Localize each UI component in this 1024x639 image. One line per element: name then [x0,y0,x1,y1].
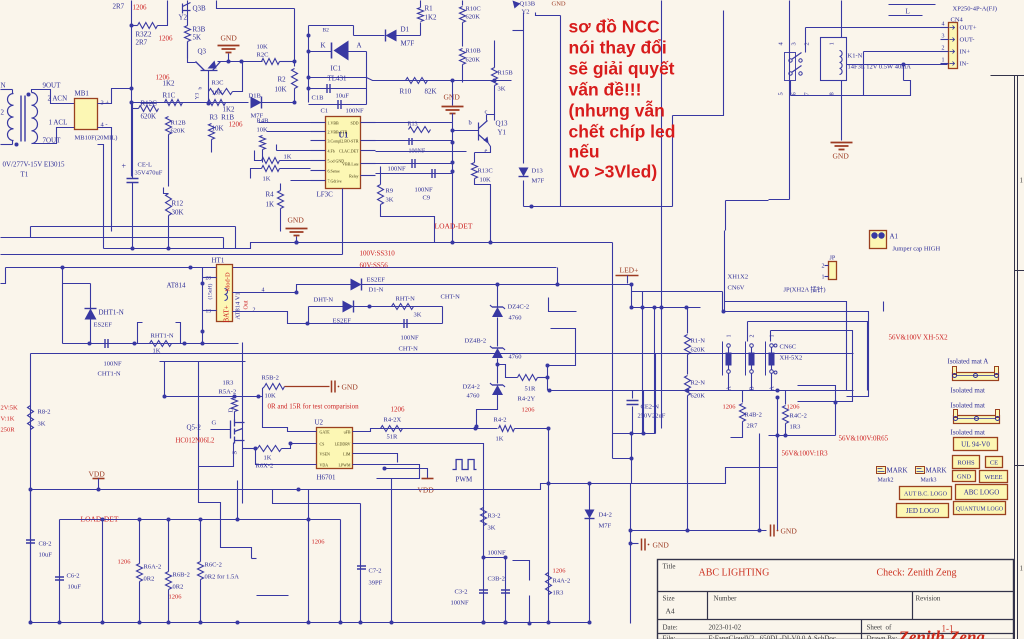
svg-text:2: 2 [750,335,756,338]
svg-text:LEDDRV: LEDDRV [335,442,351,447]
svg-text:GND: GND [781,527,798,536]
svg-text:1206: 1206 [553,568,567,575]
svg-text:uFB: uFB [344,430,351,435]
svg-text:ROHS: ROHS [957,459,975,466]
svg-text:D13: D13 [532,168,543,175]
svg-text:UL 94-V0: UL 94-V0 [961,440,990,448]
svg-text:TL431: TL431 [328,75,348,83]
svg-text:10K: 10K [257,127,269,134]
svg-text:IC1: IC1 [331,65,342,73]
svg-text:1K: 1K [496,436,504,443]
svg-text:56V&100V XH-5X2: 56V&100V XH-5X2 [889,334,949,342]
svg-text:vấn đề!!!: vấn đề!!! [569,80,642,100]
svg-text:DHT-N: DHT-N [314,297,334,304]
svg-text:620K: 620K [171,128,186,135]
svg-text:3K: 3K [38,421,46,428]
svg-text:T1: T1 [21,171,29,179]
svg-text:C3-2: C3-2 [455,589,468,596]
svg-text:JP: JP [830,256,836,262]
svg-text:GATE: GATE [320,430,331,435]
svg-text:13: 13 [206,309,212,315]
svg-text:M7F: M7F [599,523,612,530]
svg-text:Drawn By:: Drawn By: [867,635,898,639]
svg-text:1K2: 1K2 [425,14,438,22]
svg-text:4: 4 [942,22,945,28]
svg-text:39PF: 39PF [369,580,383,587]
svg-text:R2C: R2C [257,52,269,59]
svg-text:JP(XH2A 插针): JP(XH2A 插针) [784,285,826,294]
svg-text:Isolated mat: Isolated mat [951,429,985,437]
svg-text:1K: 1K [266,201,275,209]
svg-text:R4A-2: R4A-2 [553,578,571,585]
svg-text:56V&100V:0R65: 56V&100V:0R65 [839,435,889,443]
svg-text:N: N [1,82,6,90]
svg-text:4760: 4760 [509,315,522,322]
svg-text:nếu: nếu [569,142,600,162]
svg-text:VDA: VDA [320,463,329,468]
svg-text:DZ4B-2: DZ4B-2 [465,338,487,345]
svg-text:5: 5 [778,92,785,95]
svg-text:2R7: 2R7 [113,3,125,11]
svg-text:GND: GND [552,1,566,8]
svg-text:M7F: M7F [532,178,545,185]
svg-text:LED+: LED+ [620,266,639,275]
svg-text:1 ACL: 1 ACL [49,119,68,127]
svg-text:10uF: 10uF [336,93,350,100]
svg-text:10uF: 10uF [39,552,53,559]
svg-text:1: 1 [822,275,825,281]
svg-text:R6X-2: R6X-2 [256,463,274,470]
svg-text:1206: 1206 [118,559,132,566]
svg-text:AT814 V1: AT814 V1 [235,292,242,319]
svg-text:Mod-D: Mod-D [225,272,232,291]
svg-text:DHT1-N: DHT1-N [99,309,124,317]
svg-text:C3B-2: C3B-2 [488,576,505,583]
svg-text:1: 1 [770,335,776,338]
svg-text:GND: GND [288,216,305,225]
svg-text:Zenith Zeng: Zenith Zeng [898,628,986,639]
svg-text:620K: 620K [466,14,481,21]
svg-text:1K2: 1K2 [163,80,176,88]
svg-text:3K: 3K [386,197,394,204]
svg-text:30K: 30K [172,209,184,217]
svg-text:K: K [321,42,326,50]
svg-text:6.Sense: 6.Sense [328,169,341,174]
svg-text:LF3C: LF3C [317,191,334,199]
svg-text:3K: 3K [498,86,506,93]
svg-text:WEEE: WEEE [984,474,1002,481]
svg-text:4.Fb: 4.Fb [328,149,335,154]
svg-text:AT814: AT814 [167,282,187,290]
svg-text:51R: 51R [525,386,537,393]
svg-text:JED LOGO: JED LOGO [906,507,939,515]
svg-text:XP250-4P-A(FJ): XP250-4P-A(FJ) [953,6,997,13]
svg-text:Vo >3Vled): Vo >3Vled) [569,162,658,182]
svg-text:CHT-N: CHT-N [441,294,461,301]
svg-text:R3-2: R3-2 [488,513,501,520]
svg-text:sẽ giải quyết: sẽ giải quyết [569,59,675,79]
svg-text:H6701: H6701 [317,474,337,482]
svg-text:MARK: MARK [887,467,908,475]
svg-text:CN6C: CN6C [780,344,797,351]
svg-text:chết chíp led: chết chíp led [569,122,676,142]
svg-text:12.BO-STR: 12.BO-STR [339,139,359,144]
svg-text:1206: 1206 [229,121,244,129]
svg-text:5K: 5K [193,34,202,42]
svg-text:CHT-N: CHT-N [399,346,419,353]
svg-text:3: 3 [942,34,945,40]
svg-text:Isolated mat: Isolated mat [951,402,985,410]
svg-text:3: 3 [791,42,798,45]
svg-text:1: 1 [727,335,733,338]
svg-text:0V/277V-15V EI3015: 0V/277V-15V EI3015 [3,161,66,169]
svg-text:1206: 1206 [723,404,737,411]
svg-text:1R3: 1R3 [790,424,801,431]
svg-text:1K: 1K [263,176,271,183]
svg-text:A: A [727,386,733,391]
svg-text:C1: C1 [321,108,329,115]
svg-text:C9: C9 [423,195,431,202]
svg-text:R10B: R10B [466,48,482,55]
svg-text:R6A-2: R6A-2 [144,564,162,571]
svg-text:100NF: 100NF [451,600,469,607]
svg-text:100NF: 100NF [401,335,419,342]
svg-text:C8-2: C8-2 [39,541,52,548]
svg-text:BAT+: BAT+ [223,305,231,322]
svg-text:1R3: 1R3 [223,380,234,387]
svg-text:HT1: HT1 [212,257,225,265]
svg-text:1: 1 [1020,177,1024,185]
svg-text:1206: 1206 [312,539,326,546]
svg-text:E:FangCloudV2. .650DL-DI-V0.0.: E:FangCloudV2. .650DL-DI-V0.0.A.SchDoc [709,635,837,639]
svg-text:Mark2: Mark2 [878,478,894,484]
svg-text:35V470uF: 35V470uF [135,170,163,177]
svg-text:GND: GND [833,152,850,161]
svg-text:4760: 4760 [509,354,522,361]
svg-text:100NF: 100NF [388,166,406,173]
svg-text:10K: 10K [265,393,277,400]
svg-text:56V&100V:1R3: 56V&100V:1R3 [782,450,829,458]
svg-text:V:1K: V:1K [1,416,15,423]
svg-text:100NF: 100NF [104,361,122,368]
svg-text:1206: 1206 [169,594,183,601]
svg-text:9OUT: 9OUT [43,82,62,90]
svg-text:Isolated mat A: Isolated mat A [948,358,989,366]
svg-text:10K: 10K [257,44,269,51]
svg-text:sơ đồ NCC: sơ đồ NCC [569,17,661,37]
svg-text:10uF: 10uF [68,584,82,591]
svg-text:Mark3: Mark3 [921,478,937,484]
svg-text:1: 1 [829,42,836,45]
svg-text:R12C: R12C [141,100,158,108]
svg-text:HC012N06L2: HC012N06L2 [176,438,215,445]
svg-text:R4C-2: R4C-2 [790,413,807,420]
svg-text:Y2: Y2 [522,9,530,16]
svg-text:CS: CS [320,442,325,447]
svg-text:60V:SS56: 60V:SS56 [360,262,389,270]
svg-text:PWM: PWM [456,476,474,484]
svg-text:R1-N: R1-N [691,338,706,345]
svg-text:R1C: R1C [163,92,176,100]
svg-text:GND: GND [342,383,359,392]
svg-text:VDD: VDD [89,470,106,479]
svg-text:B: B [750,386,756,390]
svg-text:1: 1 [942,58,945,64]
svg-text:C7-2: C7-2 [369,568,382,575]
svg-text:R6B-2: R6B-2 [173,572,190,579]
svg-text:2: 2 [1,109,5,117]
svg-text:2: 2 [822,264,825,270]
svg-text:AUT B.C. LOGO: AUT B.C. LOGO [904,491,948,497]
svg-text:7.Gdrive: 7.Gdrive [328,179,342,184]
svg-text:ES2EF: ES2EF [367,277,386,284]
svg-text:R2-N: R2-N [691,380,706,387]
svg-text:A: A [357,42,362,50]
svg-text:VSEN: VSEN [320,452,331,457]
svg-text:A1: A1 [890,233,899,241]
svg-text:R1: R1 [425,5,434,13]
svg-text:R4B-2: R4B-2 [745,412,762,419]
svg-text:R6C-2: R6C-2 [205,562,222,569]
svg-text:R4-2Y: R4-2Y [518,396,536,403]
svg-text:2: 2 [804,42,811,45]
svg-text:M7F: M7F [251,113,264,120]
svg-text:XH1X2: XH1X2 [728,274,749,281]
svg-text:2: 2 [253,308,256,314]
svg-text:620K: 620K [466,57,481,64]
svg-text:OUT+: OUT+ [960,25,977,32]
svg-text:1R3: 1R3 [553,590,564,597]
svg-text:ES2EF: ES2EF [94,322,113,329]
svg-text:ABC LIGHTING: ABC LIGHTING [699,568,770,579]
svg-text:20: 20 [206,276,212,282]
svg-text:1206: 1206 [787,404,801,411]
svg-text:250R: 250R [1,427,16,434]
svg-text:XH-5X2: XH-5X2 [780,355,803,362]
svg-text:1K: 1K [264,455,272,462]
svg-text:Check: Zenith Zeng: Check: Zenith Zeng [877,568,957,579]
svg-text:OUT-: OUT- [960,37,975,44]
svg-text:R4-2X: R4-2X [384,417,402,424]
svg-text:Size: Size [663,595,675,603]
svg-text:0R2: 0R2 [173,584,184,591]
svg-text:A4: A4 [666,607,675,616]
svg-text:82K: 82K [425,88,437,96]
svg-text:R5A-2: R5A-2 [219,389,237,396]
svg-text:1.VBB: 1.VBB [328,121,340,126]
svg-text:Q5-2: Q5-2 [187,424,202,432]
svg-text:R8-2: R8-2 [38,409,51,416]
svg-text:QUANTUM LOGO: QUANTUM LOGO [956,506,1003,512]
svg-text:1K2: 1K2 [223,106,236,114]
svg-text:G: G [212,420,217,427]
svg-text:R12B: R12B [171,120,187,127]
svg-text:100NF: 100NF [488,550,506,557]
svg-text:R13C: R13C [478,168,493,175]
svg-text:GND: GND [653,541,670,550]
svg-text:Sheet of: Sheet of [867,624,893,632]
svg-text:GND: GND [444,93,461,102]
svg-text:M7F: M7F [401,40,415,48]
svg-text:100V:SS310: 100V:SS310 [360,250,396,258]
svg-text:CLAC.DET: CLAC.DET [339,149,359,154]
svg-text:2V:5K: 2V:5K [1,405,19,412]
svg-text:MB1: MB1 [75,90,90,98]
svg-text:3K: 3K [488,525,496,532]
svg-text:C6-2: C6-2 [67,573,80,580]
svg-text:SDD: SDD [350,121,358,126]
svg-text:Number: Number [714,595,738,603]
svg-text:IN-: IN- [960,61,969,68]
svg-text:3K: 3K [414,312,422,319]
svg-text:GND: GND [957,473,971,480]
svg-text:2R7: 2R7 [136,39,148,47]
svg-text:0R2: 0R2 [144,576,155,583]
svg-text:1K: 1K [284,154,292,161]
svg-text:VBB.Late: VBB.Late [342,162,359,167]
svg-text:D1B: D1B [249,93,262,100]
svg-text:RHT-N: RHT-N [396,296,416,303]
svg-text:R9: R9 [386,188,394,195]
svg-text:GND: GND [221,34,238,43]
svg-text:620K: 620K [691,347,706,354]
svg-text:R3C: R3C [212,80,224,87]
svg-text:620K: 620K [141,113,157,121]
svg-text:(15uH): (15uH) [207,283,214,299]
svg-text:CE: CE [990,459,998,466]
svg-text:LPWM: LPWM [339,463,351,468]
svg-text:10K: 10K [480,177,492,184]
svg-text:R4-2: R4-2 [494,417,507,424]
svg-text:Y1: Y1 [498,129,507,137]
svg-text:2 ACN: 2 ACN [48,95,68,103]
svg-text:100NF: 100NF [346,108,364,115]
svg-text:CE-L: CE-L [138,162,152,169]
svg-text:U2: U2 [315,419,324,427]
svg-text:Isolated mat: Isolated mat [951,387,985,395]
svg-text:RHT1-N: RHT1-N [151,333,174,340]
svg-text:2R7: 2R7 [747,423,759,430]
svg-text:CHT1-N: CHT1-N [98,371,121,378]
svg-text:File:: File: [663,635,676,639]
svg-text:620K: 620K [691,393,706,400]
svg-text:10K: 10K [275,86,287,94]
svg-text:Title: Title [663,563,676,571]
svg-text:4760: 4760 [467,393,480,400]
svg-text:R10: R10 [400,88,412,96]
svg-text:R12: R12 [172,200,184,208]
svg-text:D1-N: D1-N [369,287,384,294]
svg-text:DZ4C-2: DZ4C-2 [508,304,530,311]
svg-text:B2: B2 [323,28,330,34]
svg-text:Q13: Q13 [496,120,509,128]
svg-text:100NF: 100NF [415,187,433,194]
svg-text:b: b [469,120,472,127]
svg-text:R5B-2: R5B-2 [262,375,279,382]
svg-text:Relay: Relay [349,174,358,179]
svg-text:2: 2 [942,46,945,52]
svg-text:1206: 1206 [522,407,536,414]
svg-text:e: e [485,148,488,155]
svg-text:L: L [906,8,910,16]
svg-text:Q3B: Q3B [193,5,207,13]
svg-text:K1-N: K1-N [848,53,863,60]
svg-text:D: D [228,408,235,413]
svg-text:1206: 1206 [159,35,174,43]
svg-text:2.VBB-STR: 2.VBB-STR [328,130,348,135]
svg-text:(nhưng vẫn: (nhưng vẫn [569,100,665,121]
svg-text:R10C: R10C [466,6,481,13]
svg-text:A: A [770,386,776,391]
svg-text:R15B: R15B [498,70,514,77]
svg-text:Q13B: Q13B [520,1,536,8]
svg-text:Y2: Y2 [179,14,188,22]
svg-text:D4-2: D4-2 [599,512,612,519]
svg-text:10K: 10K [212,90,224,97]
svg-text:Jumper cap HIGH: Jumper cap HIGH [893,246,941,253]
svg-text:7OUT: 7OUT [43,137,62,145]
svg-text:ABC LOGO: ABC LOGO [964,488,1000,496]
svg-text:0R and 15R for test comparisio: 0R and 15R for test comparision [268,403,360,411]
svg-text:CN6V: CN6V [728,285,745,292]
svg-text:nói thay đổi: nói thay đổi [569,38,667,58]
svg-text:D1: D1 [401,26,410,34]
svg-text:S: S [232,451,239,455]
svg-text:IN+: IN+ [960,49,971,56]
svg-text:1206: 1206 [391,406,406,414]
svg-text:51R: 51R [387,434,399,441]
svg-text:Q3: Q3 [198,48,207,56]
svg-text:DZ4-2: DZ4-2 [463,384,480,391]
svg-text:LIM: LIM [343,452,351,457]
svg-text:R3B: R3B [193,26,206,34]
svg-text:Y3: Y3 [195,93,201,100]
svg-text:C1B: C1B [312,95,325,102]
svg-text:b: b [198,87,204,90]
svg-text:0R2 for 1.5A: 0R2 for 1.5A [205,574,240,581]
svg-text:2023-01-02: 2023-01-02 [709,624,742,632]
svg-text:R3Z2: R3Z2 [136,31,152,39]
svg-text:1206: 1206 [133,4,148,12]
svg-text:Date:: Date: [663,624,678,632]
svg-text:1: 1 [1020,565,1024,573]
svg-text:R13: R13 [408,122,418,128]
svg-text:MARK: MARK [926,467,947,475]
svg-text:R2: R2 [278,76,287,84]
svg-text:Revision: Revision [916,595,941,603]
svg-text:+: + [122,162,127,171]
svg-text:Out: Out [244,300,250,309]
svg-text:LOAD-DET: LOAD-DET [435,222,473,231]
svg-text:R4: R4 [266,191,275,199]
